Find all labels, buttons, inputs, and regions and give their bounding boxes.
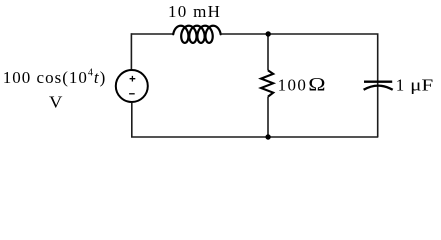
resistor R1 zigzag 100 ohm xyxy=(261,70,273,96)
capacitor C1 straight plate xyxy=(364,81,392,83)
node junction dot bottom xyxy=(265,134,270,139)
wire middle vertical upper xyxy=(267,34,269,70)
capacitor C1 curved plate xyxy=(364,86,393,90)
minus sign xyxy=(129,93,135,95)
wire left vertical lower xyxy=(131,103,133,137)
svg-text:Ω: Ω xyxy=(308,76,325,96)
wire top-left horizontal xyxy=(132,33,174,35)
plus sign xyxy=(130,76,136,82)
svg-text:100: 100 xyxy=(278,76,308,95)
node junction dot top xyxy=(266,31,271,36)
svg-text:1: 1 xyxy=(396,76,405,95)
svg-text:μF: μF xyxy=(410,76,433,95)
inductor L1 coil 10 mH xyxy=(173,26,220,43)
wire top-middle horizontal xyxy=(221,33,269,35)
wire bottom horizontal xyxy=(131,136,378,138)
wire left vertical upper xyxy=(130,33,132,69)
svg-text:100 cos(104t): 100 cos(104t) xyxy=(3,68,106,87)
wire top-right horizontal xyxy=(268,33,379,35)
svg-text:10 mH: 10 mH xyxy=(168,2,221,21)
voltage source VS circle xyxy=(116,70,148,102)
wire right vertical xyxy=(377,34,379,137)
wire middle vertical lower xyxy=(267,97,269,137)
svg-text:V: V xyxy=(49,92,63,111)
